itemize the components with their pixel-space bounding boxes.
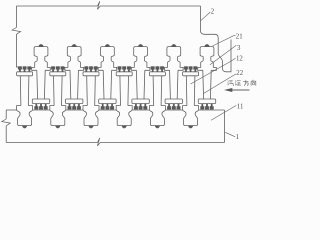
rotor blade 1 tip seal fin 1 (21)	[18, 67, 22, 72]
rotor blade 2 root (fir/T-root in rotor groove)	[50, 106, 66, 126]
break symbol in rotor left edge	[2, 119, 11, 126]
rotor blade 4 tip seal fin 2 (21)	[122, 67, 126, 72]
rotor blade 3 root bottom lug	[89, 126, 93, 128]
rotor 1: rim surface line segments (11)	[6, 109, 16, 111]
stator blade 1 tip seal fin 3 (22)	[44, 104, 48, 110]
rotor blade 1 tip seal fin 3 (21)	[28, 67, 32, 72]
stator blade 6 root lug (top bump)	[205, 44, 210, 46]
svg-text:1: 1	[236, 134, 239, 141]
casing 2: left edge lower segment and inner corner	[16, 34, 19, 67]
rotor blade 3 airfoil	[86, 76, 89, 106]
stator blade 5 tip seal fin 2 (22)	[172, 104, 176, 110]
break symbol in casing left edge	[12, 28, 21, 35]
rotor blade 2 tip seal fin 3 (21)	[61, 67, 65, 72]
stator blade 5 root lug (top bump)	[172, 44, 177, 46]
stator blade 1 tip seal fin 1 (22)	[35, 104, 39, 110]
rotor blade 5 tip seal fin 2 (21)	[156, 67, 160, 72]
rotor blade 6 tip seal fin 3 (21)	[194, 67, 198, 72]
rotor 1: left edge upper segment	[5, 110, 7, 119]
Chinese annotation 汽流方向 (steam flow direction)	[228, 81, 234, 86]
rotor blade 12 (instance 1) tip shroud band	[17, 72, 33, 76]
rotor blade 4 root (fir/T-root in rotor groove)	[116, 106, 132, 126]
stator blade 5 tip seal fin 1 (22)	[167, 104, 171, 110]
rotor blade 6 root (fir/T-root in rotor groove)	[183, 106, 199, 126]
break symbol in casing top line	[95, 1, 104, 9]
leader line for label 12	[191, 58, 236, 84]
svg-text:21: 21	[236, 34, 243, 41]
stator blade 3 (instance 6) root	[198, 47, 217, 71]
rotor blade 2 tip seal fin 1 (21)	[51, 67, 55, 72]
stator blade 4 tip seal fin 1 (22)	[134, 104, 138, 110]
leader line for label 3	[210, 45, 236, 65]
stator blade 2 tip seal fin 3 (22)	[77, 104, 81, 110]
rotor blade 5 airfoil	[152, 76, 155, 106]
casing 2: right stepped outline	[201, 6, 232, 72]
stator blade 2 tip shroud band	[66, 99, 83, 104]
rotor blade 5 root bottom lug	[155, 126, 159, 129]
rotor blade 6 tip seal fin 2 (21)	[189, 67, 193, 72]
rotor blade 5 tip seal fin 1 (21)	[151, 67, 155, 72]
stator blade 6 tip seal fin 1 (22)	[201, 104, 205, 110]
stator blade 6 tip seal fin 3 (22)	[210, 104, 214, 110]
rotor blade 2 airfoil	[53, 76, 56, 106]
stator blade 4 tip seal fin 3 (22)	[144, 104, 148, 110]
stator blade 3 tip seal fin 3 (22)	[110, 104, 114, 110]
stator blade 4 tip seal fin 2 (22)	[139, 104, 143, 110]
svg-text:12: 12	[236, 55, 243, 62]
rotor blade 5 tip seal fin 3 (21)	[160, 67, 164, 72]
leader line for label 11	[211, 105, 236, 120]
rotor blade 3 tip seal fin 2 (21)	[89, 67, 93, 72]
rotor blade 4 tip seal fin 3 (21)	[127, 67, 131, 72]
stator blade 1 tip seal fin 2 (22)	[39, 104, 43, 110]
rotor blade 1 root (fir/T-root in rotor groove)	[17, 106, 33, 126]
stator blade 3 (instance 1) root	[32, 47, 51, 71]
stator blade 6 tip shroud band	[198, 99, 215, 104]
rotor blade 1 tip seal fin 2 (21)	[23, 67, 27, 72]
rotor blade 4 root bottom lug	[122, 126, 126, 129]
stator blade 2 tip seal fin 2 (22)	[72, 104, 76, 110]
rotor blade 12 (instance 5) tip shroud band	[149, 72, 165, 76]
stator blade 5 tip seal fin 3 (22)	[177, 104, 181, 110]
stator blade 4 airfoil	[135, 70, 138, 99]
rotor blade 3 tip seal fin 3 (21)	[94, 67, 98, 72]
rotor blade 6 airfoil	[185, 76, 188, 106]
stator blade 2 tip seal fin 1 (22)	[68, 104, 72, 110]
rotor 1: right edge	[224, 110, 226, 143]
stator blade 3 tip seal fin 1 (22)	[101, 104, 105, 110]
rotor blade 2 tip seal fin 2 (21)	[56, 67, 60, 72]
svg-text:11: 11	[237, 103, 244, 110]
casing 2: left edge upper segment	[15, 6, 17, 28]
rotor blade 1 airfoil	[19, 76, 22, 106]
stator blade 2 root lug (top bump)	[72, 44, 77, 46]
stator blade 6 airfoil	[202, 70, 205, 99]
stator blade 1 tip shroud band	[32, 99, 49, 104]
rotor 1: bottom line (left part, to break)	[6, 142, 94, 144]
rotor blade 6 root bottom lug	[188, 126, 192, 129]
svg-text:22: 22	[236, 70, 243, 77]
rotor blade 12 (instance 3) tip shroud band	[83, 72, 99, 76]
stator blade 1 airfoil	[36, 70, 39, 99]
leader line for label 21	[213, 36, 236, 46]
stator blade 4 tip shroud band	[132, 99, 149, 104]
rotor 1: left edge lower segment	[5, 126, 7, 143]
stator blade 3 tip seal fin 2 (22)	[106, 104, 110, 110]
stator blade 1 root lug (top bump)	[39, 44, 44, 46]
rotor blade 6 tip seal fin 1 (21)	[184, 67, 188, 72]
flow direction arrow (points left)	[232, 89, 250, 91]
rotor blade 2 root bottom lug	[56, 126, 60, 129]
stator blade 3 tip shroud band	[99, 99, 116, 104]
casing 2: outer top line (right part)	[103, 5, 201, 7]
leader line for label 2	[201, 12, 211, 21]
rotor blade 12 (instance 4) tip shroud band	[116, 72, 132, 76]
svg-text:3: 3	[237, 45, 241, 52]
rotor blade 1 root bottom lug	[22, 126, 26, 128]
rotor blade 12 (instance 6) tip shroud band	[183, 72, 199, 76]
rotor blade 3 tip seal fin 1 (21)	[85, 67, 89, 72]
casing 2: outer top line (left part, to break)	[16, 5, 94, 7]
rotor blade 12 (instance 2) tip shroud band	[50, 72, 66, 76]
rotor 1: bottom line (right part)	[103, 142, 225, 144]
stator blade 5 airfoil	[169, 70, 172, 99]
break symbol in rotor bottom line	[95, 138, 104, 146]
stator blade 3 (instance 3) root	[98, 47, 117, 71]
rotor blade 4 tip seal fin 1 (21)	[118, 67, 122, 72]
stator blade 3 (instance 2) root	[65, 47, 84, 71]
leader line for label 1	[225, 132, 235, 137]
rotor blade 4 airfoil	[119, 76, 122, 106]
rotor blade 3 root (fir/T-root in rotor groove)	[83, 106, 99, 126]
stator blade 2 airfoil	[69, 70, 72, 99]
stator blade 3 root lug (top bump)	[105, 44, 110, 46]
stator blade 3 airfoil	[102, 70, 105, 99]
stator blade 5 tip shroud band	[165, 99, 182, 104]
stator blade 4 root lug (top bump)	[138, 44, 143, 46]
rotor blade 5 root (fir/T-root in rotor groove)	[149, 106, 165, 126]
svg-text:2: 2	[211, 9, 215, 16]
leader line for label 22	[204, 74, 237, 94]
stator blade 3 (instance 5) root	[165, 47, 184, 71]
stator blade 3 (instance 4) root	[131, 47, 150, 71]
stator blade 6 tip seal fin 2 (22)	[205, 104, 209, 110]
